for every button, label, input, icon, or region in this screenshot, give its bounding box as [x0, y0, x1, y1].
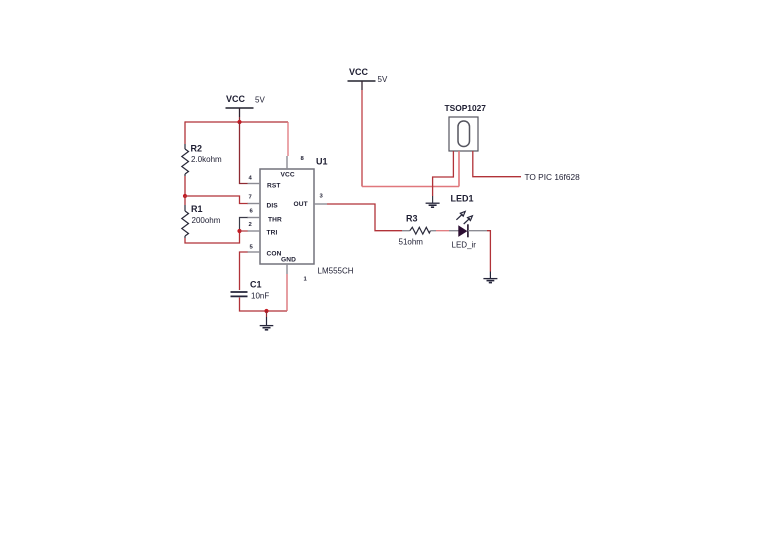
svg-text:LED_ir: LED_ir	[452, 241, 477, 250]
svg-text:OUT: OUT	[294, 201, 308, 208]
wire R2 bottom to node	[184, 176, 186, 196]
pin 7 stub (DIS)	[248, 203, 261, 205]
wire CON pin to C1	[240, 252, 249, 290]
wire THR link to TRI	[240, 218, 249, 232]
op-amp/timer U1 LM555CH body	[260, 157, 354, 276]
pin 5 stub (CON)	[248, 251, 261, 253]
node junction R2/R1/DIS	[183, 194, 187, 198]
node junction ground tap	[264, 309, 268, 313]
wire OUT to R3	[327, 204, 402, 231]
wire R1 bottom to TRI	[185, 231, 240, 243]
svg-text:10nF: 10nF	[251, 292, 269, 301]
wire VCC stem to RST pin	[240, 122, 248, 184]
svg-text:GND: GND	[281, 257, 296, 264]
node junction TRI	[237, 229, 241, 233]
node junction at VCC rail	[237, 120, 241, 124]
power symbol VCC (left, 5V)	[226, 94, 266, 117]
svg-text:R2: R2	[191, 144, 203, 154]
resistor R3	[399, 214, 437, 247]
ground (TSOP)	[426, 196, 440, 207]
wire TSOP right pin to PIC	[473, 151, 521, 177]
ground (below C1 rail)	[260, 311, 274, 330]
wire C1 bottom rail	[240, 298, 288, 312]
svg-text:R3: R3	[406, 214, 418, 224]
svg-text:2.0kohm: 2.0kohm	[191, 155, 222, 164]
IR receiver TSOP1027	[445, 103, 487, 151]
svg-text:VCC: VCC	[349, 67, 369, 77]
wire node to DIS pin	[185, 196, 248, 204]
pin 2 stub (TRI)	[248, 230, 261, 232]
pin 6 stub (THR)	[248, 217, 261, 219]
pin 3 stub (OUT)	[314, 203, 327, 205]
wire VCC stem down to rail	[239, 117, 241, 122]
wire GND pin down to rail	[286, 274, 288, 311]
emission arrow 1	[456, 211, 465, 219]
svg-text:TRI: TRI	[267, 230, 278, 237]
pin 4 stub (RST)	[248, 183, 261, 185]
svg-text:DIS: DIS	[267, 203, 279, 210]
svg-text:R1: R1	[191, 204, 203, 214]
capacitor C1	[231, 280, 270, 301]
svg-text:VCC: VCC	[281, 172, 295, 179]
svg-text:C1: C1	[250, 280, 262, 290]
emission arrow 2	[464, 216, 473, 224]
wire R3 to LED	[436, 230, 449, 232]
power symbol VCC (right, 5V)	[348, 67, 388, 90]
wire TRI junction to pin	[240, 230, 249, 232]
resistor R2	[182, 144, 222, 177]
svg-text:5V: 5V	[378, 75, 388, 84]
ground (below LED)	[483, 272, 497, 283]
LED LED1 (LED_ir)	[449, 194, 487, 250]
wire top rail y=122	[185, 121, 288, 123]
wire TSOP left pin to ground	[433, 151, 454, 196]
wire LED to ground	[487, 231, 490, 272]
svg-text:VCC: VCC	[226, 94, 246, 104]
pin 8 stub (VCC top)	[286, 156, 288, 169]
wire VCC2 to TSOP middle pin	[362, 186, 459, 188]
wire rail to pin 8	[287, 122, 289, 156]
wire VCC2 stem down	[361, 90, 363, 187]
svg-text:U1: U1	[316, 157, 328, 167]
svg-text:TO PIC 16f628: TO PIC 16f628	[525, 172, 581, 182]
svg-text:RST: RST	[267, 183, 281, 190]
svg-text:200ohm: 200ohm	[192, 216, 221, 225]
svg-text:TSOP1027: TSOP1027	[445, 103, 487, 113]
svg-text:LED1: LED1	[451, 194, 474, 204]
svg-text:CON: CON	[267, 251, 282, 258]
wire TSOP middle pin down	[458, 151, 460, 187]
pin 1 stub (GND)	[286, 264, 288, 274]
svg-text:THR: THR	[268, 217, 282, 224]
resistor R1	[182, 196, 221, 238]
wire rail down to R2 top	[184, 121, 186, 144]
svg-text:5V: 5V	[255, 96, 265, 105]
svg-text:51ohm: 51ohm	[399, 238, 424, 247]
svg-text:LM555CH: LM555CH	[318, 267, 354, 276]
